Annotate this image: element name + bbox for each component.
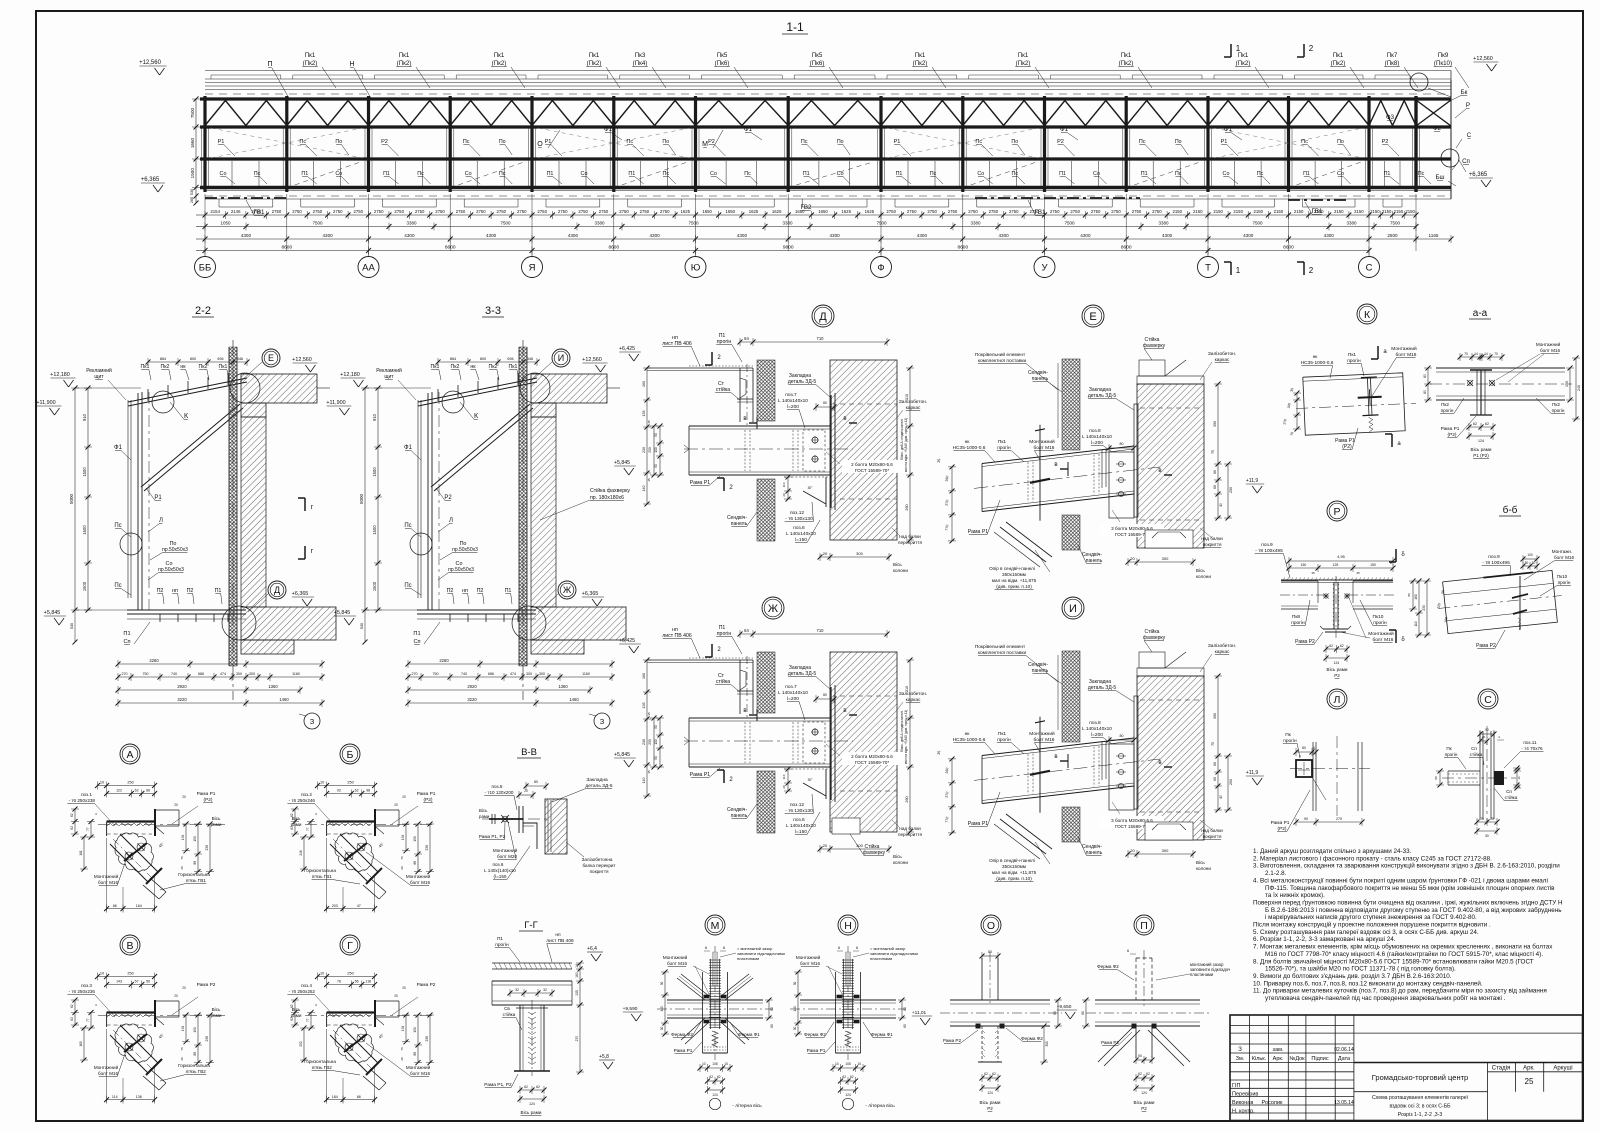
svg-text:2750: 2750 (1152, 209, 1162, 214)
svg-text:9. Вимоги до болтових з'єднань: 9. Вимоги до болтових з'єднань див. розд… (1253, 972, 1452, 980)
svg-text:зам.: зам. (1273, 1047, 1284, 1053)
svg-text:Ф2: Ф2 (1433, 125, 1442, 132)
svg-text:2750: 2750 (1132, 209, 1142, 214)
svg-text:Пс: Пс (801, 139, 808, 145)
svg-text:250: 250 (127, 972, 133, 976)
svg-text:Р2: Р2 (1057, 139, 1064, 145)
svg-text:фахверку: фахверку (1143, 343, 1166, 349)
svg-text:20: 20 (174, 803, 178, 807)
svg-text:З: З (310, 717, 315, 726)
svg-text:Перевірив: Перевірив (1232, 1092, 1258, 1098)
svg-text:260: 260 (905, 796, 909, 802)
svg-text:комплектної поставки: комплектної поставки (978, 358, 1027, 364)
svg-text:2750: 2750 (1091, 209, 1101, 214)
svg-text:панель: панель (731, 813, 748, 819)
svg-text:125: 125 (1333, 563, 1339, 567)
svg-text:№Док: №Док (1289, 1056, 1305, 1062)
svg-text:П2: П2 (447, 588, 454, 594)
svg-text:8600: 8600 (957, 245, 968, 251)
svg-text:Опір в сендвіч-панелі: Опір в сендвіч-панелі (989, 858, 1035, 863)
svg-text:2750: 2750 (394, 209, 404, 214)
svg-text:1160: 1160 (582, 672, 590, 676)
svg-text:Монтажний: Монтажний (1536, 341, 1561, 347)
svg-text:покриття: покриття (1203, 834, 1222, 839)
svg-text:Б: Б (347, 749, 354, 761)
svg-text:Пк5: Пк5 (717, 52, 728, 59)
svg-text:Ф1: Ф1 (1224, 126, 1233, 133)
svg-text:200: 200 (648, 739, 652, 745)
svg-text:2750: 2750 (537, 209, 547, 214)
svg-text:124: 124 (987, 1091, 993, 1095)
svg-text:1460: 1460 (569, 697, 579, 702)
svg-text:l=200: l=200 (787, 404, 799, 410)
svg-text:76: 76 (400, 856, 404, 860)
svg-text:Пк5: Пк5 (812, 52, 823, 59)
svg-text:80: 80 (1081, 1011, 1085, 1015)
svg-text:Пк10: Пк10 (1557, 574, 1568, 579)
svg-text:ПФ-115. Товщина лакофарбового: ПФ-115. Товщина лакофарбового покриття н… (1265, 884, 1555, 892)
svg-text:300: 300 (1162, 848, 1169, 853)
svg-text:4300: 4300 (1162, 233, 1173, 238)
svg-text:Ф1: Ф1 (1060, 126, 1069, 133)
svg-text:Залізобетон.: Залізобетон. (899, 399, 927, 405)
svg-text:+6,4: +6,4 (587, 946, 597, 952)
svg-text:114: 114 (112, 1095, 118, 1099)
svg-text:694: 694 (507, 357, 513, 361)
svg-text:390: 390 (1213, 713, 1217, 719)
svg-text:деталь ЗД-5: деталь ЗД-5 (1088, 685, 1117, 691)
svg-text:Вісь: Вісь (893, 562, 902, 567)
svg-text:86: 86 (113, 904, 117, 908)
svg-text:ББ: ББ (199, 263, 211, 274)
svg-text:20: 20 (402, 986, 406, 990)
svg-text:Сп: Сп (1471, 746, 1477, 751)
svg-text:4300: 4300 (917, 233, 928, 238)
svg-text:- т4 70х76: - т4 70х76 (1521, 746, 1543, 751)
svg-text:П1: П1 (123, 631, 130, 637)
svg-text:270: 270 (1336, 817, 1342, 821)
svg-text:Стійка: Стійка (1145, 628, 1160, 635)
svg-text:2.1-2.8.: 2.1-2.8. (1265, 870, 1287, 877)
svg-text:2150: 2150 (1354, 209, 1364, 214)
svg-text:14: 14 (575, 964, 579, 968)
svg-text:Р2: Р2 (1141, 1106, 1147, 1111)
svg-text:Пс: Пс (1139, 139, 1146, 145)
svg-text:62: 62 (1485, 422, 1489, 426)
svg-text:7. Монтаж металевих елементів,: 7. Монтаж металевих елементів, крім місц… (1253, 943, 1553, 951)
svg-text:252: 252 (299, 1041, 303, 1047)
svg-text:пр. 180х180х6: пр. 180х180х6 (590, 495, 624, 501)
svg-text:105: 105 (712, 1062, 718, 1066)
svg-text:64: 64 (744, 336, 749, 341)
svg-text:300: 300 (1162, 556, 1169, 561)
svg-text:1625: 1625 (749, 209, 759, 214)
svg-text:80: 80 (770, 1007, 774, 1011)
svg-text:62: 62 (290, 826, 294, 830)
svg-text:62: 62 (984, 1072, 988, 1076)
svg-text:стійка: стійка (716, 678, 730, 685)
svg-text:4300: 4300 (998, 233, 1009, 238)
svg-text:4300: 4300 (568, 233, 579, 238)
svg-text:в: в (743, 708, 746, 714)
svg-text:7500: 7500 (688, 221, 699, 226)
svg-text:перекриття: перекриття (898, 540, 922, 545)
svg-text:Вісь: Вісь (1196, 860, 1205, 865)
svg-text:Ф1: Ф1 (404, 445, 413, 451)
svg-text:Вісь рами: Вісь рами (1471, 447, 1492, 452)
svg-text:По: По (1011, 139, 1018, 145)
svg-text:80: 80 (903, 1007, 907, 1011)
svg-text:70: 70 (1464, 352, 1468, 356)
svg-text:П2: П2 (157, 588, 164, 594)
svg-text:4300: 4300 (1324, 233, 1335, 238)
svg-text:Сп: Сп (123, 639, 130, 645)
svg-text:П1: П1 (628, 171, 635, 177)
svg-text:62: 62 (1146, 1072, 1150, 1076)
svg-text:Пс: Пс (499, 171, 506, 177)
svg-text:(Пк2): (Пк2) (1331, 60, 1346, 67)
svg-text:Пк1: Пк1 (915, 52, 926, 59)
svg-text:Ф1: Ф1 (604, 126, 613, 133)
svg-text:(Р2): (Р2) (1447, 432, 1456, 438)
svg-text:Пк1: Пк1 (589, 52, 600, 59)
svg-text:утеплювача сендвіч-панелей під: утеплювача сендвіч-панелей під час прове… (1265, 994, 1506, 1002)
svg-text:- т6 250х238: - т6 250х238 (69, 798, 96, 803)
svg-text:2: 2 (1309, 266, 1314, 275)
svg-text:Пс: Пс (663, 171, 670, 177)
svg-text:прогін: прогін (1445, 752, 1458, 757)
svg-text:Св: Св (504, 1006, 510, 1011)
svg-text:Монтажний: Монтажний (1029, 438, 1055, 445)
svg-text:М16 по ГОСТ 7798-70* класу мі: М16 по ГОСТ 7798-70* класу міцності 4.6 … (1265, 950, 1543, 958)
svg-text:160: 160 (79, 1041, 83, 1047)
svg-text:Пс: Пс (1257, 171, 1264, 177)
svg-text:Рама Р1: Рама Р1 (690, 480, 711, 486)
svg-text:поз.9: поз.9 (1488, 554, 1500, 560)
svg-text:50: 50 (1532, 561, 1536, 565)
svg-text:Арк.: Арк. (1273, 1056, 1284, 1062)
svg-text:70: 70 (1494, 352, 1498, 356)
svg-text:50: 50 (654, 756, 658, 760)
svg-text:По: По (335, 139, 342, 145)
svg-text:250: 250 (347, 972, 353, 976)
svg-text:комплектної поставки: комплектної поставки (978, 650, 1027, 656)
svg-text:L 140х(140)х10: L 140х(140)х10 (484, 868, 516, 873)
svg-text:З: З (600, 717, 605, 726)
svg-text:- т6 250х236: - т6 250х236 (69, 989, 96, 994)
svg-text:Вісь рами: Вісь рами (1327, 667, 1348, 672)
svg-text:20: 20 (400, 1057, 404, 1061)
svg-text:б-б: б-б (1503, 504, 1518, 516)
svg-text:+9,650: +9,650 (1057, 1004, 1072, 1010)
svg-text:238: 238 (425, 845, 429, 851)
svg-text:47: 47 (357, 904, 361, 908)
svg-text:(Пк6): (Пк6) (810, 60, 825, 67)
svg-text:8600: 8600 (1283, 245, 1294, 251)
svg-text:1500: 1500 (82, 581, 87, 591)
svg-text:покриття: покриття (590, 869, 609, 874)
svg-text:Монтажний: Монтажний (406, 1064, 431, 1070)
svg-text:150: 150 (413, 836, 417, 842)
svg-text:в: в (1054, 754, 1057, 760)
svg-text:110: 110 (782, 482, 786, 487)
svg-text:136: 136 (136, 1095, 142, 1099)
svg-text:Покрівельний елемент: Покрівельний елемент (975, 351, 1026, 358)
svg-text:болт М20: болт М20 (497, 854, 518, 859)
svg-text:Ф1: Ф1 (744, 126, 753, 133)
svg-text:По: По (662, 139, 669, 145)
svg-text:Схема розташування елементів г: Схема розташування елементів галереї (1372, 1095, 1469, 1101)
svg-text:рами: рами (211, 822, 222, 827)
svg-text:Р2: Р2 (381, 139, 388, 145)
svg-text:Пк2: Пк2 (161, 364, 170, 370)
svg-text:Монтажний: Монтажний (796, 954, 821, 960)
svg-text:750: 750 (433, 672, 439, 676)
svg-text:66: 66 (146, 789, 150, 793)
svg-text:панель: панель (1032, 376, 1049, 382)
svg-text:У: У (1041, 263, 1048, 274)
svg-text:2750: 2750 (989, 209, 999, 214)
svg-text:Р2: Р2 (1334, 673, 1340, 678)
svg-text:Пк1: Пк1 (1018, 52, 1029, 59)
svg-text:910: 910 (82, 413, 87, 421)
svg-text:Пс: Пс (404, 523, 411, 529)
svg-text:2920: 2920 (177, 684, 187, 689)
svg-text:колони: колони (893, 568, 908, 573)
svg-text:Вісь рами: Вісь рами (1134, 1100, 1155, 1105)
svg-text:2750: 2750 (640, 209, 650, 214)
svg-text:пластинами: пластинами (870, 956, 892, 961)
svg-text:Со: Со (1093, 171, 1100, 177)
svg-text:2150: 2150 (1173, 209, 1183, 214)
svg-text:Р2: Р2 (987, 1106, 993, 1111)
svg-text:Ферма Ф2: Ферма Ф2 (1097, 964, 1119, 969)
svg-text:474: 474 (510, 672, 516, 676)
svg-text:(Р2): (Р2) (423, 797, 432, 803)
svg-text:3380: 3380 (970, 221, 981, 226)
svg-text:ГОСТ 15589-70*: ГОСТ 15589-70* (855, 760, 889, 765)
svg-text:2150: 2150 (1394, 209, 1404, 214)
svg-text:нп: нп (555, 933, 561, 938)
svg-text:Пк2: Пк2 (1552, 402, 1560, 407)
svg-text:деталь ЗД-5: деталь ЗД-5 (788, 379, 817, 385)
svg-text:160: 160 (1414, 594, 1418, 600)
svg-text:75: 75 (1211, 742, 1215, 746)
svg-text:Ферма Ф1: Ферма Ф1 (871, 1032, 893, 1037)
svg-text:5000: 5000 (359, 493, 364, 504)
svg-text:+12,560: +12,560 (292, 357, 312, 363)
svg-text:НС35-1000-0,6: НС35-1000-0,6 (1301, 360, 1334, 366)
svg-text:прогін: прогін (1291, 620, 1305, 626)
svg-text:Рама Р1, Р2: Рама Р1, Р2 (484, 1082, 512, 1088)
svg-text:Т: Т (1205, 263, 1211, 274)
svg-text:мал на відм. +11,875: мал на відм. +11,875 (992, 870, 1037, 875)
svg-text:прогін: прогін (997, 737, 1011, 743)
svg-text:1600: 1600 (82, 525, 87, 535)
svg-text:Закладна: Закладна (586, 777, 608, 783)
svg-text:62: 62 (135, 789, 139, 793)
svg-text:160: 160 (642, 673, 646, 679)
svg-text:Ж: Ж (563, 585, 572, 595)
svg-text:1500: 1500 (372, 467, 377, 477)
svg-text:П1: П1 (1141, 171, 1148, 177)
svg-text:Підпис: Підпис (1311, 1056, 1328, 1062)
svg-text:Горизонтальна: Горизонтальна (178, 1063, 210, 1068)
svg-text:Стадія: Стадія (1492, 1066, 1510, 1072)
svg-text:+12,560: +12,560 (139, 60, 162, 66)
svg-text:300: 300 (249, 672, 255, 676)
svg-text:+9,590: +9,590 (623, 1006, 638, 1012)
svg-text:лист ПВ 406: лист ПВ 406 (662, 341, 692, 347)
svg-text:62: 62 (290, 813, 294, 817)
svg-text:25: 25 (1480, 817, 1484, 821)
svg-text:20: 20 (182, 795, 186, 799)
svg-text:2150: 2150 (1294, 209, 1304, 214)
svg-text:Аркуші: Аркуші (1553, 1066, 1572, 1072)
svg-text:110: 110 (782, 774, 786, 779)
svg-text:Пс: Пс (744, 171, 751, 177)
svg-text:8600: 8600 (281, 245, 292, 251)
svg-text:Пк1: Пк1 (494, 52, 505, 59)
svg-text:80: 80 (1302, 746, 1306, 750)
svg-text:124: 124 (712, 1093, 718, 1097)
svg-text:60: 60 (1213, 470, 1217, 474)
svg-text:140: 140 (642, 486, 646, 492)
svg-text:7500: 7500 (1252, 221, 1263, 226)
svg-text:(див. прим. п.10): (див. прим. п.10) (996, 876, 1032, 881)
svg-text:Стійка фахверку: Стійка фахверку (590, 487, 630, 494)
svg-text:пр.50х50х3: пр.50х50х3 (158, 567, 184, 573)
svg-text:Р1: Р1 (154, 495, 162, 501)
svg-text:П1: П1 (1384, 171, 1391, 177)
svg-text:864: 864 (160, 357, 166, 361)
svg-text:2750: 2750 (333, 209, 343, 214)
svg-text:20: 20 (180, 1057, 184, 1061)
svg-text:Залізобетонна: Залізобетонна (582, 857, 613, 862)
svg-text:Вісь: Вісь (212, 816, 221, 821)
svg-text:270: 270 (575, 1036, 579, 1042)
svg-text:l=150: l=150 (795, 537, 807, 543)
svg-text:в'язь ГВ2: в'язь ГВ2 (312, 1065, 332, 1070)
svg-text:66: 66 (357, 1095, 361, 1099)
svg-text:2260: 2260 (149, 658, 159, 663)
svg-text:в: в (1158, 760, 1161, 766)
svg-text:П2: П2 (477, 588, 484, 594)
svg-text:щит: щит (384, 374, 394, 380)
svg-text:По: По (499, 139, 506, 145)
svg-text:35: 35 (937, 750, 942, 755)
svg-text:15526-70*), та шайби М20 по ГО: 15526-70*), та шайби М20 по ГОСТ 11371-7… (1265, 965, 1456, 973)
svg-text:Со: Со (220, 171, 227, 177)
svg-text:+6,365: +6,365 (292, 591, 309, 597)
svg-text:20: 20 (1130, 556, 1135, 561)
svg-text:(Пк2): (Пк2) (587, 60, 602, 67)
svg-text:пр.50х50х3: пр.50х50х3 (448, 567, 474, 573)
svg-text:1650: 1650 (702, 209, 712, 214)
svg-text:150: 150 (1370, 563, 1376, 567)
svg-text:И: И (558, 353, 564, 363)
svg-text:в'язь ГВ1: в'язь ГВ1 (186, 878, 206, 883)
svg-text:2750: 2750 (497, 209, 507, 214)
svg-text:+5,845: +5,845 (44, 610, 61, 616)
svg-text:поз.3: поз.3 (81, 983, 92, 988)
svg-text:20: 20 (782, 785, 786, 789)
svg-text:2750: 2750 (599, 209, 609, 214)
svg-text:2750: 2750 (476, 209, 486, 214)
svg-text:Вісь рами: Вісь рами (980, 1100, 1001, 1105)
svg-text:8600: 8600 (608, 245, 619, 251)
svg-text:2150: 2150 (1274, 209, 1284, 214)
svg-text:П: П (267, 61, 272, 68)
svg-text:7500: 7500 (876, 221, 887, 226)
svg-text:+5,845: +5,845 (334, 610, 351, 616)
svg-text:Вісь рами: Вісь рами (521, 1110, 542, 1115)
svg-text:+5,8: +5,8 (599, 1054, 609, 1060)
svg-text:(Пк2): (Пк2) (1236, 60, 1251, 67)
svg-text:С: С (1366, 263, 1373, 274)
svg-text:62: 62 (70, 1004, 74, 1008)
svg-text:Пк1: Пк1 (1121, 52, 1132, 59)
svg-text:деталь ЗД-5: деталь ЗД-5 (585, 783, 612, 789)
svg-text:140: 140 (793, 1006, 797, 1012)
svg-text:З: З (1238, 1047, 1242, 1053)
svg-text:8600: 8600 (445, 245, 456, 251)
svg-text:1650: 1650 (818, 209, 828, 214)
svg-text:740: 740 (461, 672, 467, 676)
svg-text:мал на відм. +5,845 (див. прим: мал на відм. +5,845 (див. прим. п.11) (904, 418, 908, 472)
svg-text:9800: 9800 (783, 245, 794, 251)
svg-text:Пс: Пс (1301, 139, 1308, 145)
svg-text:Пк: Пк (1285, 732, 1291, 738)
svg-text:10: 10 (320, 972, 324, 976)
svg-text:АА: АА (362, 263, 375, 274)
svg-text:124: 124 (529, 1102, 535, 1106)
svg-text:П: П (1140, 920, 1148, 932)
svg-text:7500: 7500 (190, 107, 195, 118)
svg-text:поз.8: поз.8 (1089, 720, 1101, 726)
svg-text:Бш: Бш (1435, 174, 1444, 181)
svg-text:Горизонтальна: Горизонтальна (304, 868, 336, 873)
svg-text:4300: 4300 (404, 233, 415, 238)
svg-text:П2: П2 (187, 588, 194, 594)
svg-text:124: 124 (1478, 439, 1484, 443)
svg-text:20: 20 (402, 795, 406, 799)
svg-text:Рама Р2: Рама Р2 (1101, 1040, 1120, 1045)
svg-text:13.05.14: 13.05.14 (1334, 1100, 1354, 1106)
svg-text:нк: нк (180, 364, 186, 370)
svg-text:Пк1: Пк1 (219, 364, 228, 370)
svg-text:50: 50 (988, 950, 992, 954)
svg-text:62: 62 (1340, 644, 1344, 648)
svg-text:П1: П1 (215, 588, 222, 594)
svg-text:2750: 2750 (517, 209, 527, 214)
svg-text:2750: 2750 (272, 209, 282, 214)
svg-text:С: С (1467, 132, 1472, 139)
svg-text:100: 100 (654, 447, 658, 453)
svg-text:200: 200 (648, 447, 652, 453)
svg-text:6: 6 (856, 946, 858, 950)
svg-text:П1: П1 (497, 936, 503, 942)
svg-text:135: 135 (642, 703, 646, 709)
svg-text:2150: 2150 (1370, 209, 1380, 214)
svg-text:7500: 7500 (500, 221, 511, 226)
svg-text:300: 300 (1045, 1041, 1049, 1047)
svg-text:686: 686 (488, 672, 494, 676)
svg-text:(Пк2): (Пк2) (1016, 60, 1031, 67)
svg-text:4300: 4300 (1080, 233, 1091, 238)
svg-text:деталь ЗД-5: деталь ЗД-5 (788, 671, 817, 677)
svg-text:(Пк4): (Пк4) (633, 60, 648, 67)
